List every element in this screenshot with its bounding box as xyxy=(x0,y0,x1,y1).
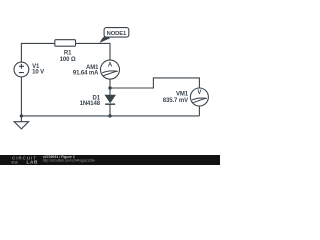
wire node junction to VM1 top (right branch) xyxy=(110,78,199,89)
svg-text:100 Ω: 100 Ω xyxy=(60,57,76,63)
wire diode bottom to bottom rail xyxy=(109,104,111,116)
junction dot bottom rail at diode xyxy=(108,114,111,117)
svg-text:A: A xyxy=(108,63,113,69)
wire AM1 bottom to diode top xyxy=(109,79,111,95)
watermark bar xyxy=(0,155,220,165)
wire bottom rail xyxy=(21,115,199,117)
voltage source V1 xyxy=(14,62,44,77)
wire VM1 bottom to bottom rail xyxy=(198,106,200,116)
wire V1 top to R1 left xyxy=(21,43,54,62)
svg-text:10 V: 10 V xyxy=(32,70,44,76)
svg-text:LAB: LAB xyxy=(27,160,39,165)
svg-text:V: V xyxy=(197,90,201,96)
svg-text:NODE1: NODE1 xyxy=(107,31,127,37)
watermark text xyxy=(43,155,96,162)
ground xyxy=(14,116,28,129)
svg-text:1N4148: 1N4148 xyxy=(80,101,101,107)
CircuitLab logo xyxy=(12,156,39,165)
voltmeter VM1 xyxy=(163,88,209,106)
svg-text:91.64 mA: 91.64 mA xyxy=(73,71,99,77)
svg-text:VM1: VM1 xyxy=(176,92,189,98)
ammeter AM1 xyxy=(73,60,120,79)
wire R1 right to NODE1 corner down to AM1 top xyxy=(76,43,111,60)
svg-text:http://circuitlab.com/c/b4hqga: http://circuitlab.com/c/b4hqgaz1z6w xyxy=(43,158,96,162)
diode D1 xyxy=(80,95,116,107)
resistor R1 xyxy=(55,40,76,64)
node junction dot below AM1 xyxy=(108,86,111,89)
junction dot bottom rail at ground xyxy=(20,114,23,117)
svg-text:R1: R1 xyxy=(64,51,72,57)
svg-text:835.7 mV: 835.7 mV xyxy=(163,98,188,104)
wire V1 bottom to ground junction xyxy=(20,77,22,116)
node flag NODE1 xyxy=(100,28,129,43)
